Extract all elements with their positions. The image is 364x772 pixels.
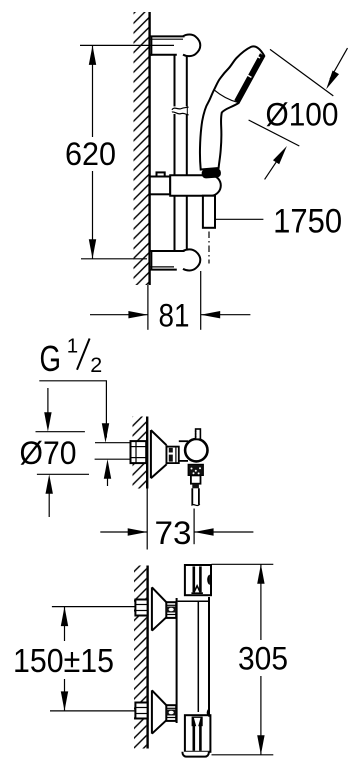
svg-text:2: 2 bbox=[90, 353, 102, 377]
svg-text:Ø70: Ø70 bbox=[20, 435, 77, 471]
svg-text:73: 73 bbox=[155, 515, 192, 551]
svg-text:1750: 1750 bbox=[273, 202, 342, 240]
svg-text:G: G bbox=[40, 338, 62, 379]
svg-text:150±15: 150±15 bbox=[13, 643, 114, 680]
svg-text:81: 81 bbox=[159, 298, 190, 334]
svg-text:305: 305 bbox=[238, 640, 288, 676]
svg-text:1: 1 bbox=[67, 335, 78, 358]
svg-text:Ø100: Ø100 bbox=[266, 96, 339, 132]
svg-text:620: 620 bbox=[65, 136, 116, 172]
